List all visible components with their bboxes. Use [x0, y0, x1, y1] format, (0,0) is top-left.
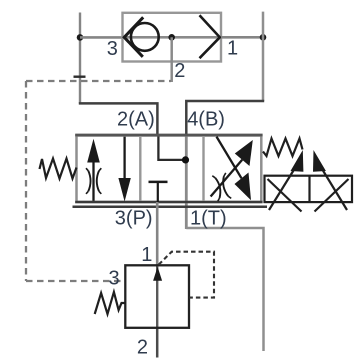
wire: port 2 tail below reducing valve [156, 327, 159, 358]
cell1 throttle [88, 171, 90, 192]
wire: port 2 drop [170, 37, 173, 82]
cell3 crossed arrow down-right [217, 137, 242, 179]
dashed internal pilot of reducing valve [159, 252, 214, 298]
svg-text:1: 1 [141, 244, 152, 266]
pilot line hop at crossing [74, 75, 86, 77]
wire: left riser (port 3 line up) [79, 13, 81, 104]
wire: 2(A) horizontal run [79, 103, 158, 136]
spring left [40, 159, 77, 179]
wire: P line from valve to reducing valve [156, 202, 159, 266]
node: junction port 2 of check valve [168, 34, 175, 41]
spring right [263, 139, 303, 157]
cell1 down arrow [123, 137, 125, 179]
solenoid a cross lines [268, 179, 302, 212]
dashed pilot line bottom horizontal [26, 280, 125, 282]
wire: elbow to 4(B) [186, 101, 264, 136]
cell3 throttle [212, 173, 231, 201]
svg-text:2(A): 2(A) [117, 109, 155, 131]
main valve bottom edge (darker) [75, 201, 262, 204]
wire: port 1 line [221, 36, 263, 39]
cell3 crossed arrow up-right [211, 160, 243, 197]
solenoid b cross lines [315, 179, 349, 212]
wire: through check valve body [124, 36, 220, 39]
svg-text:3: 3 [107, 38, 118, 60]
reducing valve box [125, 265, 189, 328]
svg-text:4(B): 4(B) [187, 109, 225, 131]
reducing valve spring [95, 292, 126, 314]
wire: right riser [262, 12, 265, 101]
cell divider 1 [139, 136, 141, 201]
svg-text:3(P): 3(P) [115, 208, 153, 230]
interface line under valve [73, 206, 268, 209]
check valve box [123, 13, 222, 62]
svg-text:2: 2 [137, 337, 148, 359]
solenoid a proportional arrow [291, 150, 304, 172]
wire: B-T through line [185, 136, 188, 229]
node: junction on left riser [77, 34, 84, 41]
svg-text:1(T): 1(T) [190, 208, 227, 230]
wire: port 3 to check valve [80, 36, 124, 39]
check valve seat [124, 17, 143, 57]
check valve ball [131, 23, 159, 51]
cell1 up arrow [92, 161, 94, 201]
svg-text:2: 2 [174, 60, 185, 82]
node: junction in centre position [182, 156, 189, 163]
cell2 A stub to junction [158, 137, 185, 160]
dashed pilot line left vertical [25, 81, 27, 281]
solenoid block [265, 176, 353, 202]
main valve top edge (darker) [75, 134, 262, 137]
solenoid b proportional arrow [313, 150, 326, 172]
main valve body [77, 136, 262, 203]
reducing valve arrow [153, 267, 162, 281]
wire: 1(T) elbow to right [186, 228, 263, 351]
svg-text:3: 3 [109, 268, 120, 290]
svg-text:1: 1 [227, 38, 238, 60]
cell2 blocked P port [149, 181, 168, 184]
flow arrow chevron [200, 15, 220, 58]
dashed pilot line from check valve port 2 [26, 80, 171, 82]
node: junction on right riser [260, 34, 267, 41]
cell divider 2 [202, 136, 204, 201]
wire: line through reducing valve [156, 266, 158, 327]
solenoid block divider [308, 176, 310, 202]
